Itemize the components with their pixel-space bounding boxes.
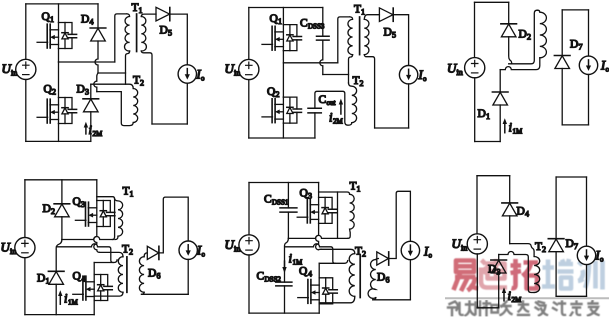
watermark char 5 (light blue) (578, 261, 603, 290)
T2 primary winding panel5 (349, 254, 355, 297)
wire D5 to output rail panel2 (393, 15, 408, 66)
svg-text:D: D (478, 108, 486, 120)
wire left rail lower panel1 (25, 80, 27, 142)
svg-text:2: 2 (542, 245, 546, 254)
watermark divider line (446, 297, 609, 299)
T1 secondary bottom lead (141, 51, 152, 124)
svg-text:in: in (10, 247, 16, 256)
T1 primary bottom lead to riser panel2 (349, 55, 353, 83)
T2 secondary winding panel5 (368, 260, 376, 299)
svg-text:T: T (350, 181, 357, 193)
wire output right rail lower panel2 (408, 84, 410, 128)
svg-text:o: o (202, 251, 206, 259)
watermark slogan line (9 pseudo-glyphs) (448, 301, 599, 316)
svg-text:6: 6 (386, 276, 390, 285)
T2 secondary bottom lead panel4 (142, 292, 145, 294)
svg-text:D: D (519, 29, 527, 41)
svg-text:D: D (148, 268, 156, 280)
T2 secondary bottom lead panel5 (373, 298, 376, 300)
svg-text:D: D (37, 273, 45, 285)
T1 secondary top lead (141, 14, 156, 16)
wire bottom rail panel3 (475, 141, 501, 143)
T1 winding panel4 (115, 199, 123, 236)
capacitor Cout panel2 (308, 108, 321, 113)
svg-text:2: 2 (52, 88, 56, 97)
wire CDSS1 bottom to H1 node panel5 (287, 212, 289, 238)
inductance T2 winding panel6 (534, 257, 540, 293)
T2 secondary top lead panel5 (376, 259, 379, 260)
diode D3 panel6 (498, 255, 500, 261)
wire lead1 to inductor bracket panel3 (509, 10, 538, 64)
wire Q1 drain to top rail (58, 4, 60, 23)
transistor Q3 panel4 (75, 201, 115, 227)
T2 primary bottom lead to Q4 bus panel5 (319, 296, 355, 302)
T2 core panel4 (126, 257, 128, 292)
svg-text:2: 2 (276, 90, 280, 99)
wire output right rail lower panel4 (187, 259, 189, 294)
transistor Q1 panel1 (37, 23, 77, 49)
svg-text:D: D (384, 27, 392, 39)
current arrow i1M panel3 (504, 123, 506, 133)
svg-text:o: o (606, 66, 609, 74)
wire left rail upper panel6 (476, 176, 478, 234)
voltage source Uin panel3 (465, 58, 485, 78)
T1 core panel2 (359, 17, 361, 55)
T1 secondary top lead panel2 (364, 15, 379, 20)
svg-text:7: 7 (579, 43, 583, 52)
wire top rail panel5 (249, 182, 319, 184)
wire Q4 source to bottom rail panel5 (318, 304, 320, 313)
svg-text:4: 4 (308, 270, 312, 279)
svg-text:D: D (160, 25, 168, 37)
voltage source Uin panel2 (239, 59, 259, 79)
diode D5 panel1 (156, 7, 170, 21)
svg-text:D: D (517, 206, 525, 218)
svg-text:T: T (354, 4, 361, 16)
wire W2 CDSS3 node to T1 riser panel2 (323, 74, 349, 76)
svg-text:1: 1 (130, 190, 134, 199)
diode D6 panel4 (147, 246, 158, 259)
wire output bottom rail panel6 (556, 295, 586, 297)
wire D5 to output right rail (170, 14, 188, 65)
svg-text:D: D (377, 272, 385, 284)
transistor Q3 panel5 (297, 197, 337, 223)
diode D1 panel3 (499, 70, 501, 92)
svg-text:1: 1 (46, 277, 50, 286)
inductance T1 winding panel5 (319, 181, 361, 239)
wire D4 anode down with hop over W1 (95, 41, 98, 73)
wire output top rail panel3 (562, 9, 588, 11)
wire tap lead to T2 winding panel4 (94, 260, 117, 263)
wire Q3 source down with two hops to H3 panel4 (94, 227, 100, 253)
wire jog D2 node to D1 riser panel4 (56, 240, 62, 272)
svg-text:C: C (264, 194, 272, 206)
wire tap lead to T2 winding panel5 (319, 261, 348, 264)
T1 secondary bottom lead panel2 (364, 55, 374, 128)
T1 lead-in from Q3 drain bus panel4 (97, 197, 115, 240)
wire W1 midpoint to T1 bracket panel2 (283, 62, 337, 64)
wire lead1 to T2 winding top panel6 (510, 244, 534, 257)
T1 lead-in from Q3 bus panel5 (319, 192, 350, 194)
svg-text:1: 1 (357, 185, 361, 194)
wire Q3 source down with two hops panel5 (316, 223, 321, 249)
svg-text:in: in (234, 245, 240, 254)
wire Q1 drain to top rail panel2 (282, 8, 284, 25)
T2 primary bottom lead to Q4 bus panel4 (94, 292, 123, 296)
watermark char 4 (light blue) (542, 259, 574, 289)
T1 secondary winding panel2 (364, 19, 369, 54)
wire top rail panel6 (477, 175, 510, 177)
svg-text:in: in (457, 68, 463, 77)
svg-text:T: T (535, 241, 542, 253)
svg-text:o: o (600, 256, 604, 264)
svg-text:2: 2 (527, 33, 531, 42)
svg-text:DSS3: DSS3 (308, 23, 325, 31)
wire D2 anode down with jog panel3 (509, 37, 512, 64)
wire bottom rail panel1 (26, 140, 91, 142)
svg-text:T: T (355, 246, 362, 258)
svg-text:1: 1 (139, 6, 143, 15)
svg-text:2M: 2M (93, 130, 104, 138)
wire output bottom rail (152, 123, 187, 125)
svg-text:1: 1 (486, 112, 490, 121)
wire D2 anode down to clamp node panel4 (61, 217, 63, 240)
current source Io panel4 (179, 241, 197, 259)
T1 left bracket panel2 (338, 17, 350, 63)
wire top rail panel3 (475, 1, 509, 3)
diode D5 panel2 (379, 8, 393, 22)
diode D1 panel4 (48, 271, 64, 284)
svg-text:DSS1: DSS1 (272, 199, 289, 207)
T1 secondary winding (141, 16, 146, 51)
wire D6 to output loop panel4 (159, 197, 188, 253)
svg-text:3: 3 (308, 192, 312, 201)
wire output bottom rail panel5 (373, 299, 411, 301)
wire output top rail panel6 (556, 176, 586, 178)
T1 left bracket (115, 14, 127, 62)
svg-text:DSS2: DSS2 (265, 276, 282, 284)
svg-text:in: in (461, 244, 467, 253)
diode D7 panel6 (548, 239, 564, 252)
wire jog to CDSS2 panel5 (285, 238, 289, 282)
svg-text:Q: Q (73, 271, 82, 283)
svg-text:T: T (123, 186, 130, 198)
svg-text:1: 1 (278, 17, 282, 26)
svg-text:D: D (566, 238, 574, 250)
wire bottom rail panel2 (249, 137, 315, 139)
wire Q3 drain to top rail panel5 (318, 183, 320, 198)
svg-text:3: 3 (81, 200, 85, 209)
svg-text:D: D (570, 39, 578, 51)
wire output right rail upper panel3 (588, 10, 590, 57)
transistor Q1 panel2 (262, 25, 302, 51)
wire left rail lower panel2 (248, 80, 250, 138)
voltage source Uin panel6 (467, 234, 487, 254)
T1 bracket vertical panel5 (337, 192, 339, 238)
svg-text:2M: 2M (512, 296, 523, 304)
wire output bottom rail panel2 (375, 127, 409, 129)
wire H3 to T2 primary top panel5 (321, 249, 355, 253)
wire left rail lower panel4 (24, 258, 26, 315)
wire Q3 drain to top rail panel4 (96, 180, 98, 201)
svg-text:o: o (429, 252, 433, 260)
svg-text:Q: Q (299, 266, 308, 278)
svg-text:T: T (133, 75, 140, 87)
svg-text:T: T (132, 2, 139, 14)
wire H1 node to T1 riser with hop panel5 (288, 235, 347, 238)
wire H3 to T2 primary top panel4 (99, 252, 123, 256)
svg-text:T: T (353, 75, 360, 87)
wire top rail panel2 (249, 7, 323, 9)
svg-text:1M: 1M (68, 299, 79, 307)
transistor Q2 panel2 (262, 97, 302, 123)
T1 primary winding panel2 (348, 17, 353, 55)
wire D6 to output loop panel5 (389, 191, 411, 258)
current arrow i2M panel2 (340, 104, 342, 115)
wire left rail lower panel5 (248, 255, 250, 313)
T2 secondary winding panel4 (139, 257, 144, 293)
diode D7 panel3 (554, 56, 570, 69)
svg-text:o: o (201, 75, 205, 83)
voltage source Uin panel4 (15, 238, 35, 258)
wire W1 midpoint to T1 bracket (59, 61, 115, 63)
diode D2 panel4 (61, 180, 63, 204)
wire output bottom rail panel3 (562, 124, 588, 126)
svg-text:6: 6 (157, 272, 161, 281)
svg-text:2: 2 (362, 250, 366, 259)
wire bottom rail panel4 (25, 314, 94, 316)
svg-text:C: C (300, 18, 308, 30)
T1 winding bottom lead panel4 (115, 236, 118, 239)
transistor Q2 panel1 (37, 98, 77, 124)
wire Q1 source to midpoint (58, 49, 60, 63)
wire descender D4 node to W4 with hop over W3 (94, 73, 98, 92)
wire output right rail lower (186, 83, 188, 124)
inductance T2 winding panel1 (133, 89, 138, 123)
current source Io panel3 (579, 56, 597, 74)
svg-text:in: in (234, 69, 240, 78)
transformer T1 panel2 (338, 4, 380, 129)
current source Io panel1 (178, 65, 196, 83)
wire D1 anode to bottom rail panel3 (499, 105, 501, 142)
wire Q1 source to Q2 drain midpoint panel2 (282, 51, 284, 98)
current source Io panel6 (577, 246, 595, 264)
wire D4 anode down panel6 (509, 216, 511, 244)
inductance Lm winding panel3 (537, 10, 546, 58)
wire lead2 D1 riser to winding bottom panel3 (500, 58, 540, 70)
svg-text:1: 1 (361, 8, 365, 17)
wire H2 node to T2 tap lead panel5 (285, 244, 335, 263)
T1 primary bottom lead to riser (126, 51, 130, 84)
wire Q4 drain to tap lead panel5 (318, 263, 320, 278)
wire top rail panel1 (26, 3, 98, 5)
wire output left rail upper panel6 (555, 177, 557, 239)
wire top rail panel4 (25, 179, 97, 181)
wire Q4 drain to tap lead panel4 (93, 263, 95, 275)
svg-text:T: T (122, 244, 129, 256)
wire left rail upper panel3 (474, 2, 476, 57)
transistor Q4 panel4 (73, 275, 113, 301)
current source Io panel5 (401, 241, 419, 259)
wire left rail upper panel2 (248, 8, 250, 60)
T1 core (136, 14, 138, 52)
wire output right rail lower panel6 (586, 265, 588, 297)
svg-text:2: 2 (140, 79, 144, 88)
capacitor CDSS1 panel5 (287, 183, 289, 208)
wire output right rail lower panel3 (588, 75, 590, 125)
wire Q4 source to bottom rail panel4 (93, 301, 95, 315)
T2 primary winding panel4 (118, 257, 123, 293)
current arrow i2M panel1 (85, 127, 87, 134)
wire output bottom rail panel4 (142, 293, 189, 295)
wire D1 anode to bottom rail panel4 (55, 284, 57, 314)
wire H2 clamp node to T2 tap lead panel4 (57, 244, 114, 263)
svg-text:out: out (327, 99, 336, 107)
watermark char 2 (light red) (481, 259, 507, 288)
transformer T2 panel5 (319, 246, 378, 303)
svg-text:7: 7 (574, 242, 578, 251)
T1 winding panel5 (350, 194, 355, 229)
watermark char 1 (red) (454, 261, 479, 292)
current source Io panel2 (399, 66, 417, 84)
wire D3 anode to bottom rail panel6 (498, 273, 500, 308)
wire left rail upper panel1 (25, 4, 27, 59)
svg-text:1: 1 (50, 15, 54, 24)
svg-text:o: o (423, 75, 427, 83)
wire lead2 with hop to winding bottom panel6 (499, 252, 534, 293)
wire W4 and T2 bracket (97, 92, 133, 126)
svg-text:3: 3 (85, 88, 89, 97)
wire W2 D4 node to T1 bottom riser (98, 72, 126, 74)
capacitor CDSS2 panel5 (276, 282, 292, 286)
wire left rail lower panel3 (474, 78, 476, 142)
svg-text:D: D (77, 84, 85, 96)
svg-text:2M: 2M (333, 118, 344, 126)
svg-text:1M: 1M (513, 128, 524, 136)
svg-text:C: C (257, 271, 265, 283)
voltage source Uin panel1 (16, 59, 36, 79)
diode D3 panel1 (90, 84, 92, 99)
transformer T1 panel1 (115, 2, 156, 124)
wire D3 anode to bottom rail (90, 112, 92, 142)
svg-text:C: C (319, 94, 327, 106)
T2 secondary top lead panel4 (144, 253, 147, 257)
svg-text:D: D (43, 203, 51, 215)
wire bottom rail panel5 (249, 312, 319, 314)
diode D4 panel1 (97, 4, 99, 28)
wire Cout top lead and T2 bracket panel2 (315, 91, 352, 125)
current arrow i2M panel6 (503, 292, 505, 301)
wire H1 clamp node to T1 riser with hop panel4 (62, 237, 114, 240)
wire Cout bottom lead panel2 (314, 113, 316, 138)
voltage source Uin panel5 (239, 235, 259, 255)
capacitor CDSS3 panel2 (322, 8, 324, 37)
svg-text:5: 5 (168, 29, 172, 38)
wire output right rail lower panel5 (409, 260, 411, 300)
T2 core panel5 (359, 255, 361, 298)
svg-text:in: in (11, 69, 17, 78)
wire output left rail upper panel3 (561, 10, 563, 56)
inductance T1 winding panel4 (97, 186, 134, 240)
wire Q2 drain to midpoint (58, 62, 60, 98)
inductance T2 winding panel2 (349, 83, 357, 123)
wire left rail upper panel5 (248, 183, 250, 235)
wire W3 D3 to T2 winding top (91, 84, 133, 88)
wire CDSS3 bottom with hop over W1 (320, 40, 323, 74)
T1 primary winding (124, 14, 129, 51)
wire bottom rail panel6 (477, 307, 498, 309)
svg-text:4: 4 (90, 18, 94, 27)
watermark char 3 (red) (511, 259, 539, 289)
svg-text:D: D (488, 264, 496, 276)
svg-text:2: 2 (51, 207, 55, 216)
current arrow i1M panel5 (284, 261, 286, 268)
current arrow i1M panel4 (59, 295, 61, 304)
svg-text:4: 4 (525, 210, 529, 219)
svg-text:4: 4 (82, 275, 86, 284)
transistor Q4 panel5 (298, 278, 338, 304)
transformer T2 panel4 (94, 244, 147, 297)
T1 winding bottom lead panel5 (348, 229, 350, 238)
wire Q2 source to bottom rail panel2 (282, 123, 284, 138)
diode D2 panel3 (508, 2, 510, 24)
svg-text:2: 2 (129, 248, 133, 257)
wire left rail lower panel6 (476, 254, 478, 308)
wire output left rail lower panel6 (555, 252, 557, 297)
wire output right rail upper panel6 (586, 177, 588, 247)
wire left rail upper panel4 (24, 180, 26, 238)
diode D4 panel6 (509, 176, 511, 203)
wire CDSS2 bottom lead panel5 (284, 286, 286, 313)
svg-text:2: 2 (360, 79, 364, 88)
svg-text:D: D (81, 14, 89, 26)
wire output left rail lower panel3 (561, 69, 563, 125)
diode D6 panel5 (377, 252, 389, 265)
wire Q2 source to bottom rail (58, 124, 60, 142)
svg-text:5: 5 (392, 31, 396, 40)
